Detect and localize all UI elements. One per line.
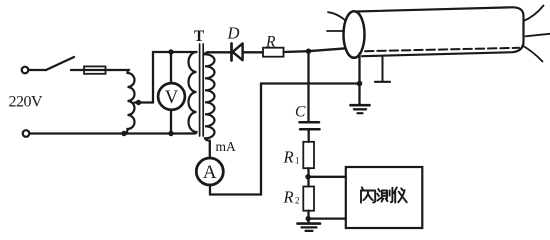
svg-text:A: A [203, 162, 217, 183]
svg-text:1: 1 [295, 156, 300, 166]
svg-text:R: R [265, 34, 276, 51]
svg-text:mA: mA [216, 139, 237, 154]
svg-text:R: R [283, 187, 294, 206]
svg-text:2: 2 [295, 196, 300, 206]
svg-text:C: C [295, 104, 306, 121]
svg-text:D: D [227, 24, 240, 43]
svg-text:V: V [165, 88, 179, 108]
svg-text:R: R [283, 148, 294, 167]
svg-text:220V: 220V [9, 94, 44, 111]
svg-text:T: T [194, 28, 205, 45]
